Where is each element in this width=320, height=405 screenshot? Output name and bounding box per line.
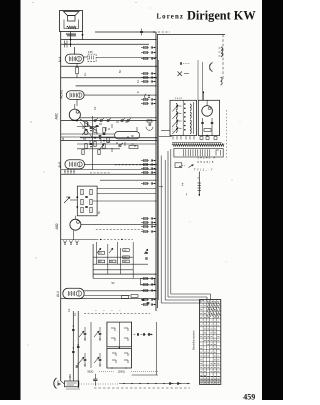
svg-text:0,35: 0,35	[88, 52, 93, 54]
svg-text:2 A 1 A 1 A: 2 A 1 A 1 A	[198, 156, 216, 159]
svg-text:300: 300	[110, 261, 113, 263]
svg-text:AB2: AB2	[55, 223, 59, 229]
svg-text:300: 300	[123, 261, 126, 263]
svg-text:Dirigent KW: Dirigent KW	[187, 9, 256, 23]
svg-text:ACH1: ACH1	[59, 90, 63, 99]
svg-text:300: 300	[99, 253, 102, 255]
svg-text:AL4: AL4	[56, 291, 60, 297]
svg-text:1000Ω: 1000Ω	[118, 371, 126, 374]
svg-text:I: I	[186, 192, 187, 196]
svg-text:. T Y ( 1 _ . Y: . T Y ( 1 _ . Y	[192, 168, 213, 172]
svg-text:300: 300	[123, 257, 126, 259]
svg-text:AB2: AB2	[55, 113, 59, 119]
svg-text:9 5 4 5 | 5: 9 5 4 5 | 5	[197, 160, 214, 164]
svg-text:Lorenz: Lorenz	[157, 14, 185, 21]
svg-text:459: 459	[243, 393, 255, 400]
svg-text:AL4: AL4	[58, 56, 62, 62]
svg-text:3 5 Σ Π: 3 5 Σ Π	[175, 98, 183, 100]
svg-text:m: m	[197, 177, 199, 179]
svg-text:500Ω: 500Ω	[87, 371, 93, 374]
svg-text:AH1: AH1	[58, 161, 62, 167]
svg-text:0,1: 0,1	[68, 308, 71, 312]
svg-text:300: 300	[123, 250, 126, 252]
svg-text:Bestellnummern: Bestellnummern	[192, 330, 196, 350]
svg-text:300: 300	[99, 261, 102, 263]
